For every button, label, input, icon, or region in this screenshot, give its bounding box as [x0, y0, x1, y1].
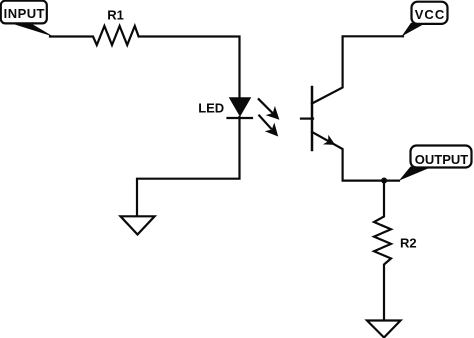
- svg-text:OUTPUT: OUTPUT: [415, 152, 469, 167]
- svg-text:INPUT: INPUT: [4, 6, 45, 21]
- svg-text:VCC: VCC: [415, 7, 445, 22]
- svg-text:R1: R1: [107, 7, 124, 22]
- svg-text:LED: LED: [198, 101, 224, 116]
- svg-text:R2: R2: [400, 235, 417, 250]
